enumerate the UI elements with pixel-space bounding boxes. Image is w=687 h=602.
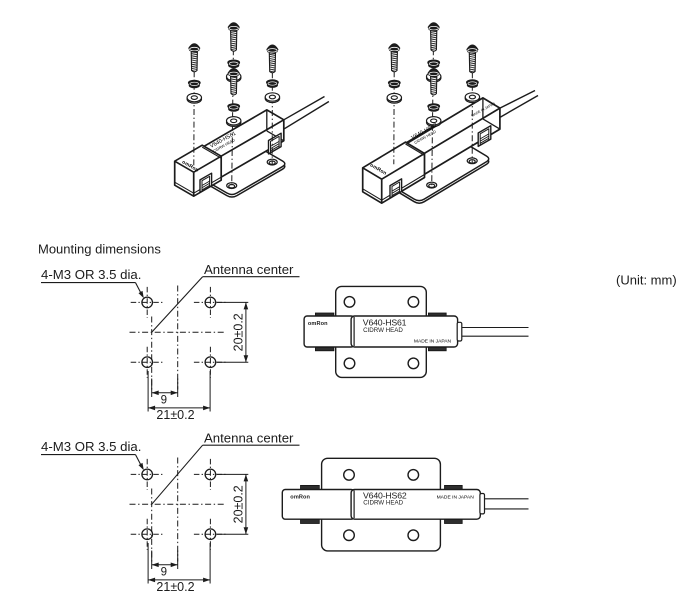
vertical centerline (antenna center)	[151, 489, 153, 562]
plate hole (front-right)	[467, 158, 477, 164]
svg-text:9: 9	[161, 394, 167, 406]
svg-text:Mounting dimensions: Mounting dimensions	[38, 242, 161, 257]
flat washer (center upper)	[227, 72, 241, 82]
flat washer (left column)	[387, 93, 401, 103]
screw (right column)	[267, 45, 278, 73]
clip (front-right, ribbed)	[478, 126, 491, 147]
cable connector	[457, 322, 462, 341]
svg-text:(Unit: mm): (Unit: mm)	[616, 273, 677, 288]
head left cap (top view)	[282, 490, 354, 520]
flat washer (right column)	[465, 93, 479, 103]
head body (iso)	[203, 110, 284, 178]
flat washer (right column)	[265, 93, 279, 103]
mounting hole top-left with centerlines	[131, 459, 164, 490]
bracket hole	[408, 358, 419, 369]
spring washer (left column)	[388, 80, 400, 88]
dimension 9	[152, 551, 178, 579]
svg-text:21±0.2: 21±0.2	[156, 408, 194, 422]
plate hole (front-right)	[267, 159, 277, 165]
junction step lines	[202, 147, 221, 179]
cable connector	[480, 494, 485, 514]
head left cap (top view)	[304, 316, 354, 347]
cable (iso)	[500, 91, 538, 118]
cable lines	[462, 328, 529, 337]
svg-text:20±0.2: 20±0.2	[231, 313, 245, 351]
mounting hole bottom-left with centerlines	[131, 519, 164, 550]
bracket plate (top view)	[322, 458, 441, 551]
mounting hole bottom-left with centerlines	[131, 347, 164, 378]
svg-text:omRon: omRon	[308, 321, 328, 327]
divider line	[353, 491, 355, 519]
svg-text:CIDRW HEAD: CIDRW HEAD	[363, 500, 403, 507]
mounting hole bottom-right with centerlines	[194, 519, 227, 550]
screw (center column, lower)	[228, 69, 239, 95]
clip (front-left, ribbed)	[200, 173, 212, 192]
clip tab	[301, 485, 320, 489]
head main body (top view)	[351, 316, 458, 347]
screw (center column, upper)	[228, 23, 239, 51]
dimension 9	[152, 379, 178, 407]
screw centerline (center)	[432, 24, 434, 188]
svg-text:Antenna center: Antenna center	[204, 430, 294, 445]
head body (iso)	[407, 98, 500, 175]
cable lines	[485, 499, 529, 509]
screw (left column)	[389, 44, 400, 72]
left end cap (iso)	[363, 142, 425, 203]
top view V640-HS62	[282, 458, 528, 551]
horizontal centerline	[130, 503, 226, 505]
antenna center leader line	[152, 277, 203, 333]
4-M3 label with leader	[41, 267, 144, 298]
left end cap (iso)	[175, 145, 222, 196]
spring washer (center lower)	[428, 104, 440, 112]
mounting hole top-left with centerlines	[131, 287, 164, 318]
mounting plate (iso)	[366, 127, 489, 203]
svg-text:MADE IN JAPAN: MADE IN JAPAN	[437, 495, 475, 501]
dimension 21±0.2	[148, 543, 210, 594]
flat washer (left column)	[187, 93, 201, 103]
svg-text:9: 9	[161, 566, 167, 578]
spring washer (left column)	[188, 80, 200, 88]
spring washer (center upper)	[428, 60, 440, 68]
screw centerline (right)	[471, 47, 473, 164]
bracket hole	[344, 470, 355, 481]
dimension 21±0.2	[148, 371, 210, 422]
screw centerline (right)	[271, 47, 273, 165]
svg-text:MADE IN JAPAN: MADE IN JAPAN	[414, 339, 452, 345]
screw (left column)	[189, 44, 200, 72]
spring washer (center lower)	[228, 104, 240, 112]
bracket plate (top view)	[336, 286, 427, 377]
isometric mounting view V640-HS61	[175, 23, 329, 197]
screw centerline (left)	[193, 46, 196, 166]
screw centerline (center)	[232, 24, 234, 189]
svg-text:4-M3 OR 3.5 dia.: 4-M3 OR 3.5 dia.	[41, 267, 141, 282]
clip tab	[301, 519, 320, 523]
spring washer (right column)	[467, 80, 479, 88]
clip tab	[315, 347, 334, 350]
bracket hole	[344, 530, 355, 541]
clip (front-right, ribbed)	[269, 133, 282, 154]
clip (front-left, ribbed)	[390, 179, 402, 198]
bracket hole	[408, 297, 419, 308]
mounting plate (iso)	[178, 132, 285, 197]
divider line	[353, 317, 355, 346]
4-M3 label with leader	[41, 439, 144, 470]
vertical centerline (pattern center)	[177, 458, 179, 562]
svg-text:CIDRW HEAD: CIDRW HEAD	[363, 327, 403, 334]
top view V640-HS61	[304, 286, 528, 377]
head main body (top view)	[351, 490, 480, 520]
clip tab	[445, 519, 463, 523]
dimension drawing (bottom, HS62)	[41, 430, 300, 594]
bracket hole	[344, 297, 355, 308]
clip tab	[428, 347, 446, 350]
dimension drawing (top, HS61)	[41, 262, 300, 422]
plate hole (front-left)	[227, 183, 237, 189]
clip tab	[445, 485, 463, 489]
mounting hole top-right with centerlines	[194, 459, 227, 490]
antenna center label	[203, 430, 300, 445]
mounting hole top-right with centerlines	[194, 287, 227, 318]
svg-text:omRon: omRon	[290, 495, 310, 501]
screw (right column)	[467, 45, 478, 73]
plate hole (front-left)	[427, 182, 437, 188]
horizontal centerline	[130, 331, 226, 333]
bracket hole	[408, 470, 419, 481]
bracket hole	[408, 530, 419, 541]
screw (center column, lower)	[428, 69, 439, 95]
isometric mounting view V640-HS62	[363, 23, 538, 203]
svg-text:20±0.2: 20±0.2	[231, 485, 245, 523]
dimension 20±0.2	[217, 302, 249, 362]
screw centerline (left)	[393, 46, 396, 164]
screw (center column, upper)	[428, 23, 439, 51]
antenna center label	[203, 262, 300, 277]
dimension 20±0.2	[217, 474, 249, 534]
svg-text:Antenna center: Antenna center	[204, 262, 294, 277]
mounting hole bottom-right with centerlines	[194, 347, 227, 378]
flat washer (center upper)	[427, 72, 441, 82]
junction step lines	[406, 144, 425, 176]
flat washer (center lower)	[427, 117, 441, 127]
svg-text:21±0.2: 21±0.2	[156, 580, 194, 594]
vertical centerline (pattern center)	[177, 286, 179, 390]
clip tab	[315, 313, 334, 316]
cable (iso)	[284, 97, 329, 129]
clip tab	[428, 313, 446, 316]
bracket hole	[344, 358, 355, 369]
antenna center leader line	[152, 445, 203, 504]
flat washer (center lower)	[227, 117, 241, 127]
svg-text:4-M3 OR 3.5 dia.: 4-M3 OR 3.5 dia.	[41, 439, 141, 454]
spring washer (right column)	[267, 80, 279, 88]
vertical centerline (antenna center)	[151, 317, 153, 390]
spring washer (center upper)	[228, 60, 240, 68]
